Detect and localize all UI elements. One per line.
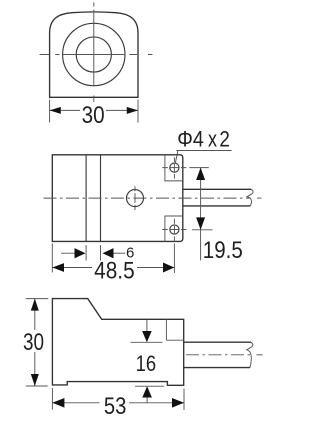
cable front view center line dash after break: [257, 354, 263, 356]
bottom tab hole: [170, 225, 179, 234]
top tab hole: [170, 163, 179, 172]
dimension 48.5 extension lines: [52, 244, 174, 274]
side view center hole vertical cross: [134, 186, 136, 210]
front view clamp block: [166, 319, 183, 340]
dimension 6 right arrow: [113, 252, 125, 254]
svg-text:48.5: 48.5: [94, 257, 135, 284]
dimension 30b down arrow: [31, 374, 39, 386]
svg-text:30: 30: [23, 329, 44, 356]
dimension 19.5 line: [200, 168, 202, 261]
side view center line dash after break: [257, 197, 262, 199]
side view panel line 1: [85, 155, 87, 242]
dimension 53 line: [52, 402, 184, 404]
top mounting tab: [165, 155, 183, 181]
cable front view top line: [184, 341, 251, 343]
top tab hole center cross: [162, 167, 186, 169]
dimension 30b extension lines: [26, 299, 49, 386]
side view center hole: [127, 190, 144, 207]
dimension 16 up arrow: [146, 398, 148, 403]
svg-text:53: 53: [104, 393, 127, 420]
label phi4x2 underline: [176, 150, 231, 152]
dimension 48.5 right arrow: [163, 263, 174, 273]
dimension 30b up arrow: [31, 299, 39, 311]
dimension 53 left arrow: [52, 398, 64, 408]
dimension 30 extension lines: [50, 100, 138, 123]
dimension 19.5 up arrow: [196, 168, 205, 180]
dimension 53 extension lines: [52, 388, 184, 410]
top view vertical center line: [93, 3, 95, 103]
top view outer circle: [63, 23, 125, 85]
svg-text:x: x: [208, 127, 217, 152]
top view body: [50, 12, 138, 97]
front view body: [52, 299, 183, 386]
dimension 48.5 line: [52, 267, 174, 269]
svg-text:19.5: 19.5: [203, 237, 243, 264]
svg-text:16: 16: [136, 351, 157, 376]
cable front view bottom line: [184, 367, 250, 369]
side view panel line 2: [100, 155, 102, 242]
side view body: [52, 155, 183, 242]
dimension 53 right arrow: [172, 398, 184, 408]
dimension 30 line: [50, 109, 138, 111]
svg-text:2: 2: [219, 127, 230, 152]
cable side view break: [247, 189, 253, 206]
dimension 6 extension lines: [86, 245, 100, 260]
bottom tab hole center cross: [162, 229, 186, 231]
dimension 19.5 down arrow: [196, 217, 205, 229]
dimension 19.5 extension lines: [189, 168, 212, 230]
cable front view center line: [186, 354, 251, 356]
dimension 48.5 left arrow: [52, 263, 64, 272]
dimension 16 bottom extension line: [135, 385, 164, 387]
dimension 30 left arrow: [50, 107, 61, 114]
top view horizontal center line: [40, 54, 153, 56]
dimension 30 right arrow: [127, 107, 138, 114]
svg-text:Φ4: Φ4: [177, 127, 204, 152]
cable side view bottom line: [183, 205, 250, 207]
svg-text:30: 30: [82, 102, 105, 129]
dimension 16 top extension line: [131, 341, 163, 343]
label phi4x2 leader: [175, 151, 178, 164]
dimension 30b line: [34, 299, 36, 386]
cable side view top line: [183, 188, 251, 190]
dimension 6 left arrow: [61, 252, 78, 254]
top view inner circle: [76, 37, 111, 72]
bottom mounting tab: [165, 216, 183, 241]
side view main center line: [44, 197, 251, 199]
cable front view break: [247, 342, 253, 367]
dimension 16 down arrow: [146, 319, 148, 331]
